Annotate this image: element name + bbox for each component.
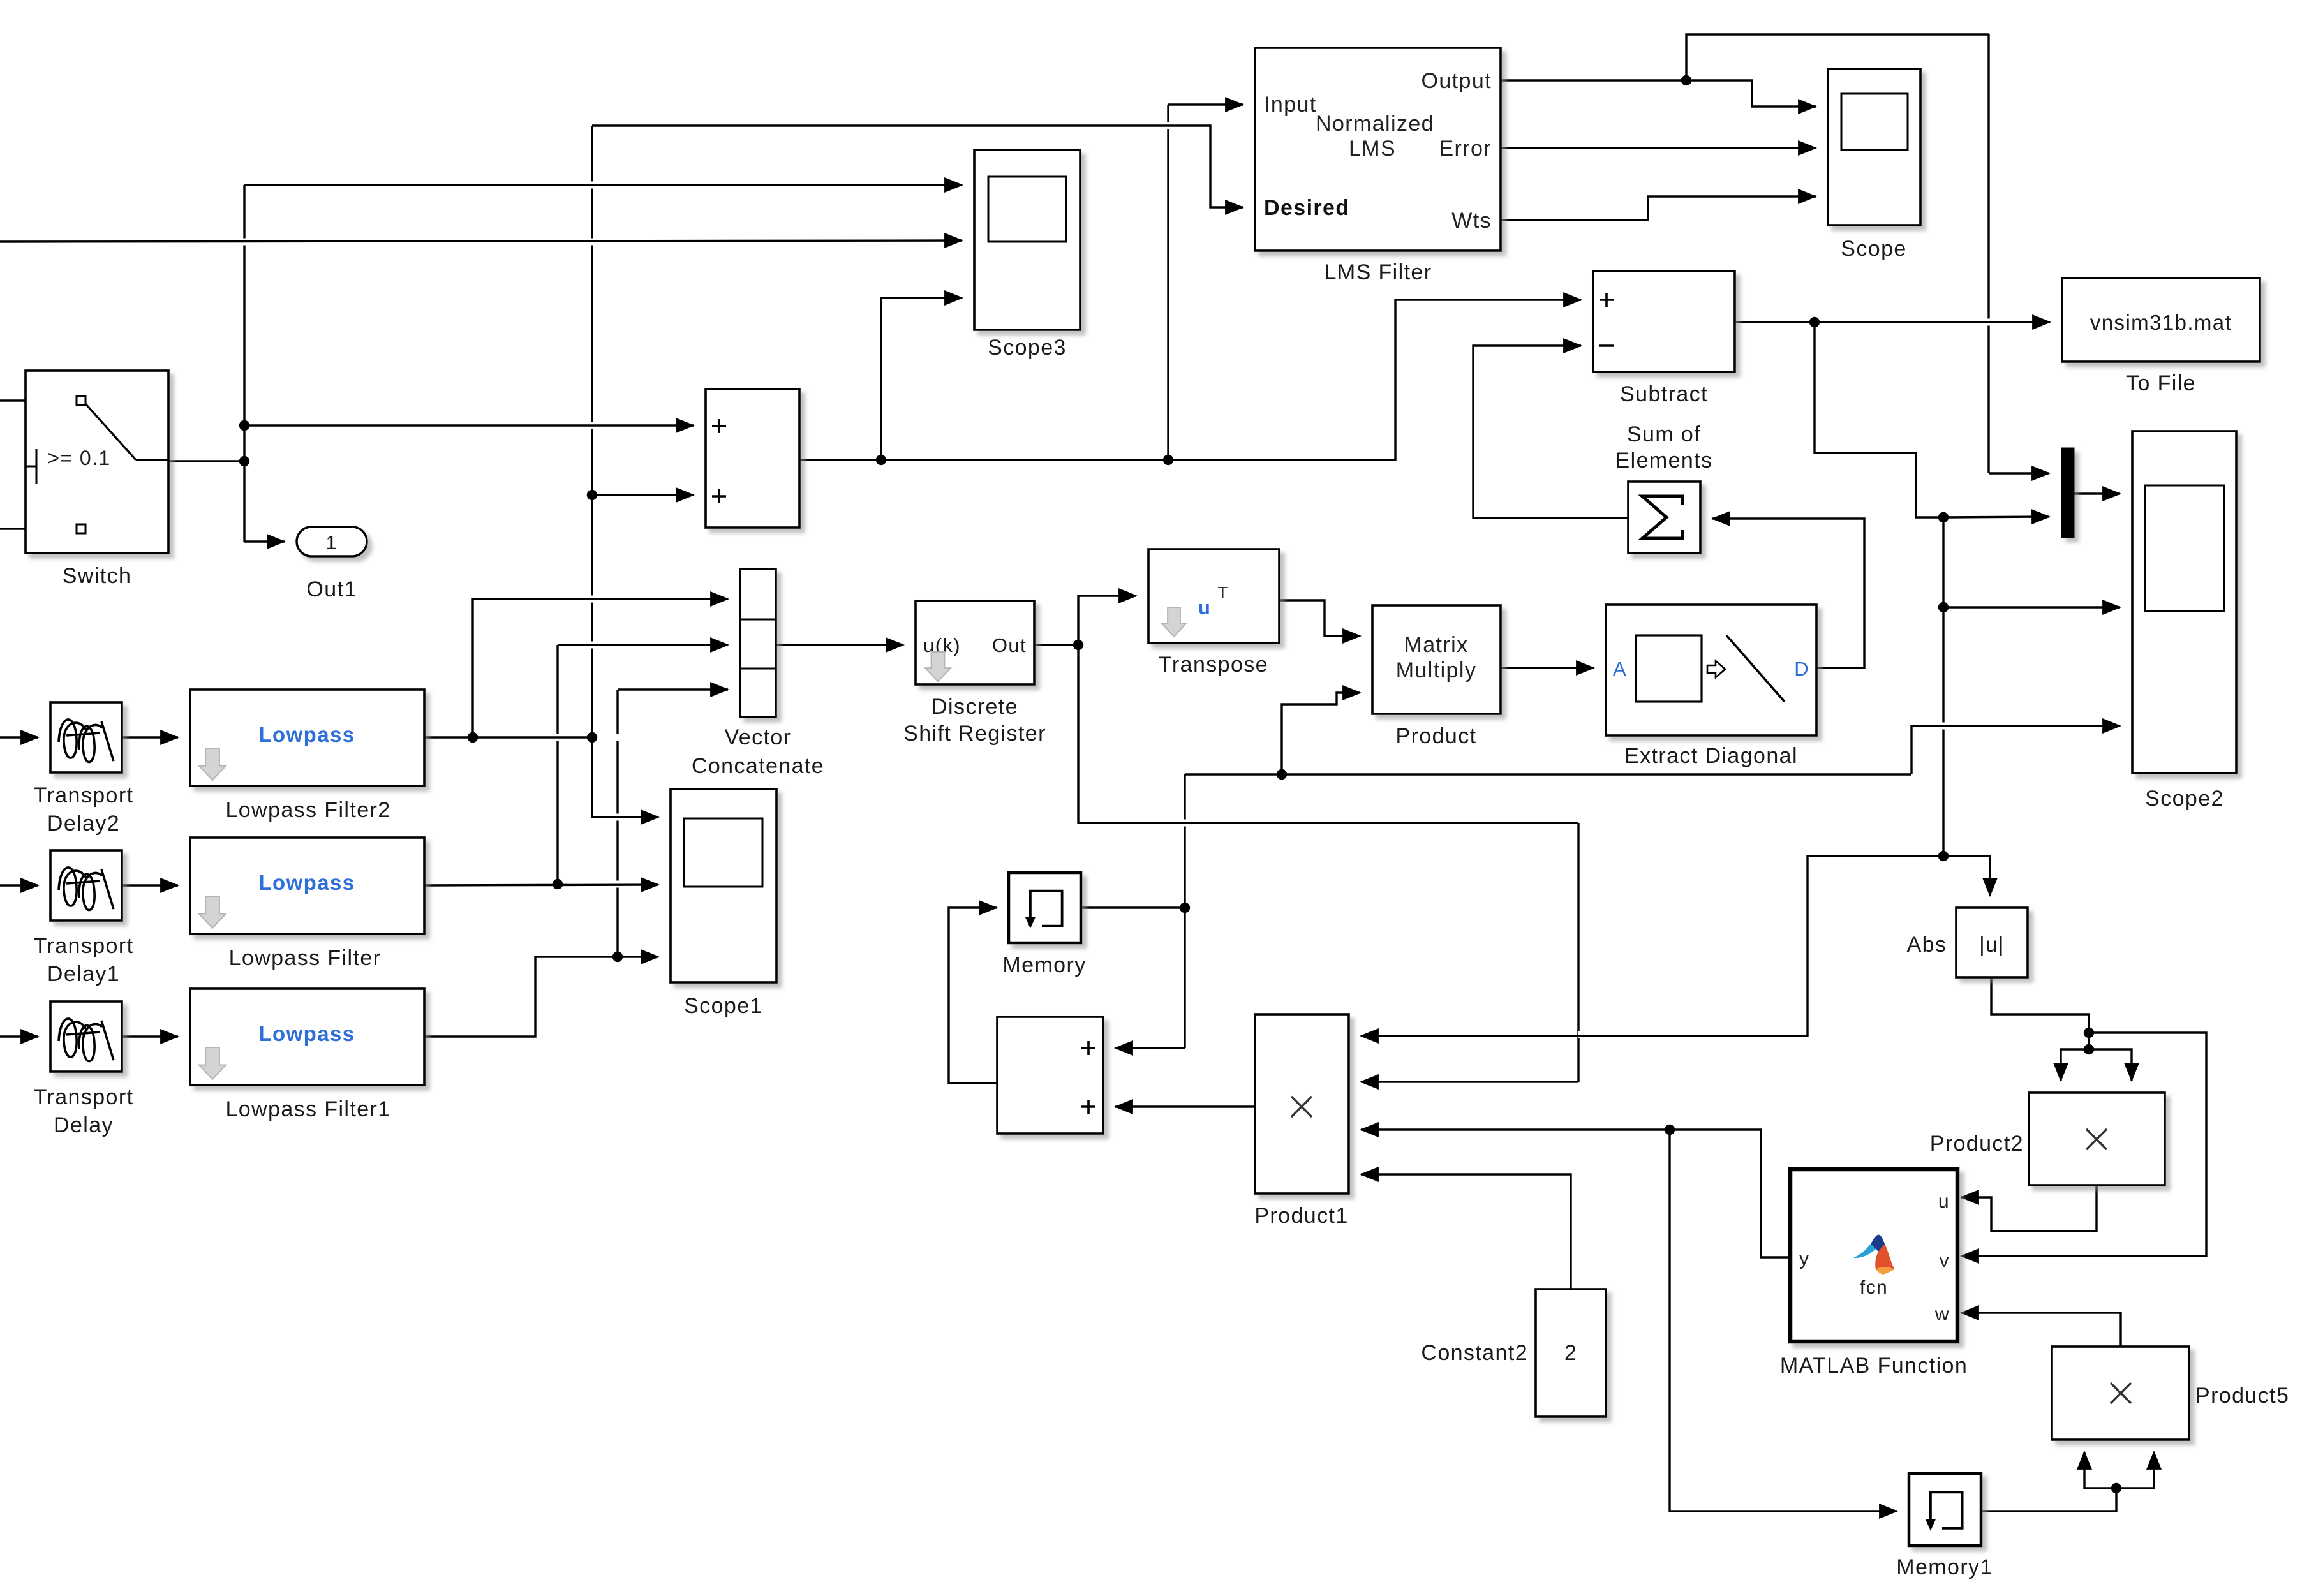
block Sum of Elements [1628, 482, 1700, 553]
wire Memory1 output [1981, 1488, 2116, 1511]
wire error down to x3046 trunk [1815, 322, 1943, 517]
node error J4 [1938, 851, 1949, 861]
Product1 x [1291, 1097, 1312, 1117]
svg-text:Output: Output [1422, 69, 1492, 93]
wire TD2 to LF2 [122, 736, 178, 738]
wire branch to Add in2 [592, 494, 694, 496]
block Transport Delay2 [50, 702, 122, 772]
svg-text:v: v [1940, 1250, 1950, 1271]
block Constant2 [1536, 1289, 1606, 1417]
block Add2 (sum flipped) [997, 1017, 1103, 1134]
wire Product2 output to MATLAB Function u [1961, 1185, 2097, 1231]
svg-text:Sum of: Sum of [1627, 422, 1701, 447]
wire to LMS Desired [592, 126, 1243, 207]
svg-text:MATLAB Function: MATLAB Function [1780, 1354, 1968, 1378]
wire to Abs input [1943, 856, 1990, 896]
wire to Add in1 [244, 424, 694, 426]
svg-text:Elements: Elements [1615, 448, 1713, 473]
Scope3 screen [988, 177, 1066, 242]
svg-text:Switch: Switch [63, 564, 132, 588]
block Transport Delay [50, 1001, 122, 1072]
wire LF2 output [424, 736, 592, 738]
block To File [2062, 278, 2260, 362]
node abs J1 [2084, 1028, 2094, 1038]
svg-text:w: w [1934, 1304, 1950, 1325]
Transport Delay icons [59, 720, 114, 762]
wire LMS Error to Scope in2 [1501, 147, 1816, 149]
node row1 J2 [587, 732, 597, 743]
Vector Concatenate dividers [740, 619, 776, 621]
wire MATLAB Function y to Product1 in3 [1361, 1130, 1790, 1257]
Memory1 icon [1931, 1492, 1963, 1528]
wire to Transpose [1078, 596, 1136, 645]
wire net: LMS Input riser [1167, 105, 1169, 460]
block Lowpass Filter [190, 838, 424, 934]
block Add (sum) [706, 389, 799, 528]
node Scope3 tap [876, 455, 886, 465]
svg-text:fcn: fcn [1860, 1277, 1888, 1298]
node error J1 [1809, 317, 1820, 327]
svg-text:Delay1: Delay1 [47, 962, 120, 986]
wire into Transport Delay [0, 1035, 38, 1037]
svg-text:Matrix: Matrix [1404, 633, 1469, 657]
wire short joint [2088, 1033, 2090, 1049]
node abs J2 [2084, 1044, 2094, 1054]
svg-text:Discrete: Discrete [932, 695, 1018, 719]
svg-text:Vector: Vector [725, 725, 792, 750]
node MM in2 tap [1277, 769, 1287, 780]
svg-text:Multiply: Multiply [1396, 658, 1476, 683]
svg-text:LMS Filter: LMS Filter [1325, 260, 1432, 284]
wire Abs output down [1991, 977, 2089, 1033]
svg-text:Delay: Delay [54, 1113, 114, 1137]
wire Extract Diagonal to Sum of Elements [1712, 519, 1864, 668]
wire Switch data input 1 [0, 399, 73, 401]
block Scope2 [2132, 431, 2236, 773]
block Vector Concatenate [740, 569, 776, 717]
svg-text:Lowpass Filter1: Lowpass Filter1 [225, 1097, 390, 1121]
svg-text:Scope: Scope [1841, 237, 1906, 261]
Product5 x [2111, 1383, 2131, 1403]
wire branch to Vector Concatenate in2 [558, 644, 728, 646]
Memory icon [1030, 891, 1062, 926]
svg-text:Transpose: Transpose [1159, 653, 1268, 677]
wire to Product1 in2 [1361, 1081, 1578, 1082]
wire Subtract output to To File [1735, 321, 2050, 323]
wire to Product5 in1 [2084, 1452, 2116, 1488]
wire Sum of Elements to Subtract minus [1473, 346, 1628, 518]
svg-text:Scope2: Scope2 [2145, 787, 2224, 811]
wire LF output to Scope1 in2 [424, 885, 658, 885]
svg-text:Transport: Transport [34, 1085, 134, 1109]
wire to Product2 in2 [2089, 1049, 2132, 1081]
block Scope1 [671, 789, 776, 982]
svg-text:Memory1: Memory1 [1896, 1555, 1993, 1579]
svg-text:Transport: Transport [34, 783, 134, 808]
svg-text:A: A [1613, 658, 1627, 680]
node fcn y J [1665, 1125, 1675, 1135]
svg-text:Input: Input [1264, 92, 1317, 117]
wire up and across [1686, 34, 1989, 80]
svg-text:Extract Diagonal: Extract Diagonal [1624, 744, 1798, 768]
wire net: VC in3 riser [616, 690, 618, 957]
wire Product5 output to MATLAB Function w [1961, 1313, 2121, 1347]
wire Matrix Multiply to Extract Diagonal [1501, 667, 1594, 669]
node row2 J [553, 879, 563, 889]
node Add in2 tap [587, 490, 597, 500]
svg-text:Product: Product [1396, 724, 1477, 748]
svg-text:Transport: Transport [34, 934, 134, 958]
block Product2 [2029, 1093, 2165, 1185]
block Product1 [1255, 1014, 1349, 1193]
node error J2 [1938, 512, 1949, 522]
svg-text:T: T [1217, 583, 1228, 602]
svg-text:Memory: Memory [1002, 953, 1086, 977]
block Scope3 [974, 150, 1080, 330]
wire Mux to Scope2 in1 [2074, 492, 2120, 494]
svg-text:Out: Out [992, 634, 1027, 656]
svg-text:Normalized: Normalized [1316, 112, 1434, 136]
wire to Mux in1 [1989, 472, 2049, 474]
wire Switch output to trunk [168, 460, 244, 462]
wire branch to Scope1 in1 [592, 737, 658, 817]
svg-text:Constant2: Constant2 [1421, 1341, 1528, 1365]
wire net: LMS output long vertical [1987, 34, 1989, 473]
wire into Transport Delay1 [0, 884, 38, 886]
wire net: DSR trunk vertical [1577, 823, 1579, 1082]
svg-text:Shift Register: Shift Register [903, 721, 1046, 746]
block LMS Filter [1255, 48, 1501, 251]
node switch out [239, 456, 249, 466]
wire Constant2 to Product1 in4 [1361, 1174, 1571, 1289]
Product2 x [2086, 1129, 2107, 1149]
block Discrete Shift Register [916, 601, 1034, 684]
wire branch to Memory1 [1670, 1130, 1897, 1511]
wire net: switch output vertical trunk [243, 185, 245, 542]
wire to Out1 [244, 540, 285, 542]
Add plus signs [712, 419, 726, 433]
block Product5 [2052, 1347, 2189, 1440]
wire LF1 output to Scope1 in3 [424, 957, 658, 1037]
svg-text:Product5: Product5 [2195, 1384, 2289, 1408]
wire DSR trunk down-right [1078, 645, 1578, 823]
svg-text:Error: Error [1439, 137, 1492, 161]
node LMS input tap [1163, 455, 1173, 465]
node Memory1 out J [2111, 1483, 2121, 1493]
svg-text:Lowpass Filter: Lowpass Filter [229, 946, 382, 970]
block Transpose [1148, 549, 1279, 643]
Transpose internals [1162, 607, 1186, 637]
wire LMS Wts to Scope in3 [1501, 196, 1816, 220]
svg-text:Lowpass: Lowpass [258, 871, 355, 894]
svg-text:D: D [1794, 658, 1809, 680]
wire Memory output [1081, 906, 1185, 908]
node row1 J1 [468, 732, 478, 743]
svg-text:vnsim31b.mat: vnsim31b.mat [2090, 311, 2232, 334]
svg-text:To File: To File [2126, 371, 2196, 395]
wire branch to Scope3 in3 [881, 298, 962, 460]
wire TD to Lowpass Filter1 [122, 1035, 178, 1037]
wire branch to Vector Concatenate in3 [618, 688, 728, 690]
svg-text:Desired: Desired [1264, 196, 1350, 220]
block Extract Diagonal [1606, 605, 1816, 735]
wire TD1 to Lowpass Filter [122, 884, 178, 886]
wire net: LF2 output riser to Desired/Add [591, 126, 593, 737]
svg-text:u: u [1938, 1191, 1950, 1212]
svg-text:Product2: Product2 [1930, 1132, 2024, 1156]
block Out1 oval [297, 527, 367, 556]
svg-text:Lowpass: Lowpass [258, 723, 355, 746]
wire Switch data input 2 [0, 528, 73, 529]
svg-text:Wts: Wts [1451, 209, 1492, 233]
svg-text:Delay2: Delay2 [47, 811, 120, 836]
node memory J [1180, 903, 1190, 913]
block Matrix Multiply (Product) [1372, 605, 1501, 714]
wire to Scope2 in2 [1943, 606, 2120, 608]
wire net: memory loop riser [1184, 774, 1185, 1048]
svg-text:Abs: Abs [1907, 933, 1947, 957]
Subtract signs [1600, 293, 1614, 307]
wire Add2 output to Memory [949, 908, 997, 1083]
svg-text:Out1: Out1 [306, 577, 357, 602]
wire memory line east [1185, 773, 1911, 775]
block MATLAB Function [1790, 1169, 1957, 1341]
Sum of Elements sigma [1642, 496, 1682, 538]
svg-text:u: u [1198, 596, 1211, 619]
wire DSR output [1034, 644, 1078, 646]
block Transport Delay1 [50, 850, 122, 920]
Add2 plus signs [1081, 1041, 1095, 1055]
wire to Product1 in1 [1361, 856, 1943, 1036]
wire Transpose to Matrix Multiply in1 [1279, 600, 1360, 636]
svg-text:1: 1 [326, 531, 338, 554]
node error J3 [1938, 602, 1949, 612]
wire LMS Output [1501, 79, 1686, 81]
svg-text:2: 2 [1564, 1341, 1577, 1365]
block Lowpass Filter2 [190, 690, 424, 786]
node LMS out J [1681, 75, 1691, 85]
svg-text:>= 0.1: >= 0.1 [47, 447, 110, 469]
svg-text:Scope3: Scope3 [988, 336, 1067, 360]
block Subtract [1593, 271, 1735, 372]
Switch icon internals [77, 396, 85, 405]
wire to Scope in1 [1686, 80, 1816, 107]
svg-text:LMS: LMS [1349, 137, 1396, 161]
block Scope [1828, 69, 1920, 225]
wire left edge to Scope3 in2 [0, 240, 962, 242]
Scope screen [1841, 94, 1908, 150]
node DSR out J [1073, 640, 1083, 650]
Scope1 screen [684, 818, 762, 887]
wire into Transport Delay2 [0, 736, 38, 738]
wire Product1 output to Add2 in2 [1115, 1105, 1255, 1107]
Scope2 screen [2145, 485, 2224, 611]
svg-text:Subtract: Subtract [1620, 382, 1708, 406]
node row3 J [612, 952, 623, 962]
svg-text:Product1: Product1 [1254, 1204, 1348, 1228]
block Memory [1009, 873, 1081, 943]
svg-text:y: y [1799, 1248, 1809, 1269]
block Mux bar [2061, 448, 2074, 538]
wire to MATLAB Function v input [1961, 1033, 2206, 1256]
wire to Add2 in1 [1115, 1047, 1185, 1049]
block Switch [26, 371, 168, 553]
block Lowpass Filter1 [190, 989, 424, 1085]
wire to Mux in2 [1943, 517, 2049, 517]
block Abs [1956, 908, 2028, 977]
wire branch to LMS Input (riser drawn above) [1168, 103, 1243, 105]
svg-text:Lowpass Filter2: Lowpass Filter2 [225, 798, 390, 822]
wire to Scope2 in3 [1911, 726, 2120, 774]
wire net: error trunk vertical at x=3046 [1942, 517, 1944, 856]
wire branch to Vector Concatenate in1 [473, 599, 728, 737]
wire Vector Concatenate to Discrete Shift Register [776, 644, 903, 646]
svg-text:Scope1: Scope1 [684, 994, 763, 1018]
MATLAB logo [1853, 1235, 1895, 1275]
svg-text:|u|: |u| [1979, 933, 2005, 956]
wire to Scope3 in1 [244, 184, 962, 186]
wire to Matrix Multiply in2 [1282, 693, 1360, 774]
svg-text:Concatenate: Concatenate [692, 754, 824, 778]
block Memory1 [1909, 1474, 1981, 1546]
svg-text:Lowpass: Lowpass [258, 1022, 355, 1046]
node switch branch A [239, 420, 249, 431]
wire to Product2 in1 [2061, 1049, 2089, 1081]
wire Add output to Subtract plus [799, 300, 1581, 460]
wire net: VC in2 riser [556, 645, 558, 884]
wire to Product5 in2 [2116, 1452, 2154, 1488]
